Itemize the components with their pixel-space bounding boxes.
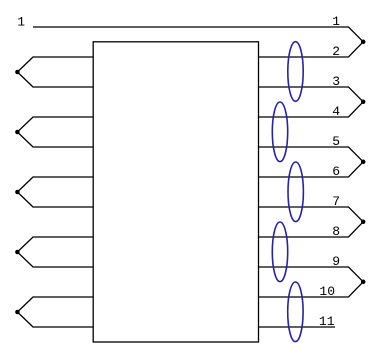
bus loop ellipse pins 4-5 (272, 102, 287, 162)
wire pin 5 (259, 147, 364, 162)
wire pin 2 (259, 42, 364, 57)
svg-text:8: 8 (332, 224, 340, 239)
svg-text:4: 4 (332, 104, 340, 119)
junction dot left pair1 (15, 70, 20, 75)
wire left pair5 top (row y=297) (17, 297, 93, 312)
svg-text:5: 5 (332, 134, 340, 149)
bus loop ellipse pins 6-7 (288, 162, 303, 222)
IC body (93, 42, 258, 342)
svg-text:6: 6 (332, 164, 340, 179)
junction dot pins 7-8 (361, 220, 366, 225)
wire left pair1 bottom (row y=87) (17, 72, 93, 87)
wire left pair5 bottom (row y=327) (17, 312, 93, 327)
junction dot left pair4 (15, 250, 20, 255)
bus loop ellipse pins 8-9 (272, 222, 287, 282)
wire pin 4 (259, 102, 364, 117)
svg-text:2: 2 (332, 44, 340, 59)
svg-text:11: 11 (319, 314, 335, 329)
bus loop ellipse pins 2-3 (288, 42, 303, 102)
junction dot pins 3-4 (361, 100, 366, 105)
junction dot pins 9-10 (361, 280, 366, 285)
wire left pair3 top (row y=177) (17, 177, 93, 192)
svg-text:9: 9 (332, 254, 340, 269)
junction dot pins 5-6 (361, 160, 366, 165)
wire pin 11 (259, 326, 336, 328)
junction dot left pair3 (15, 190, 20, 195)
wire left pair2 bottom (row y=147) (17, 132, 93, 147)
wire pin 7 (259, 207, 364, 222)
svg-text:1: 1 (17, 15, 25, 30)
junction dot left pair5 (15, 310, 20, 315)
svg-text:7: 7 (332, 194, 340, 209)
junction dot left pair2 (15, 130, 20, 135)
wire pin 10 (259, 282, 364, 297)
wire pin 3 (259, 87, 364, 102)
svg-text:1: 1 (332, 14, 340, 29)
svg-text:10: 10 (319, 284, 335, 299)
bus loop ellipse pins 10-11 (288, 282, 303, 342)
wire pin 9 (259, 267, 364, 282)
wire net1 top run (pin 1) (33, 27, 363, 42)
wire left pair4 bottom (row y=267) (17, 252, 93, 267)
svg-text:3: 3 (332, 74, 340, 89)
wire left pair2 top (row y=117) (17, 117, 93, 132)
wire left pair3 bottom (row y=207) (17, 192, 93, 207)
junction dot pins 1-2 (361, 40, 366, 45)
wire left pair1 top (row y=57) (17, 57, 93, 72)
wire left pair4 top (row y=237) (17, 237, 93, 252)
wire pin 8 (259, 222, 364, 237)
wire pin 6 (259, 162, 364, 177)
